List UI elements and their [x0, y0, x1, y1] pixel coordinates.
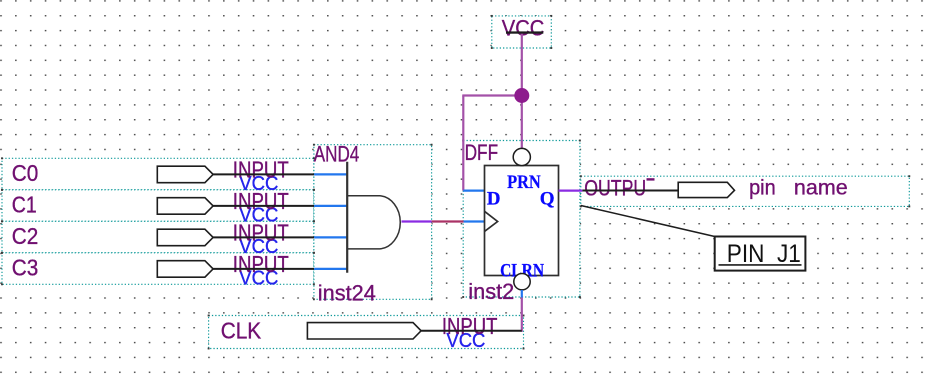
svg-text:AND4: AND4 [314, 141, 360, 166]
selection box input pin C3 [2, 253, 314, 284]
svg-text:D: D [487, 188, 501, 209]
selection box OUTPUT pin [581, 176, 910, 206]
wire VCC branch vertical [462, 96, 464, 191]
VCC symbol bar [506, 31, 543, 33]
svg-text:INPUT: INPUT [442, 313, 498, 339]
svg-text:INPUT: INPUT [233, 220, 289, 246]
svg-text:Q: Q [540, 188, 555, 209]
CLK pin symbol [307, 323, 421, 339]
selection box DFF [463, 141, 580, 298]
svg-text:name: name [794, 177, 848, 200]
junction dot [514, 88, 529, 103]
OUTPUT pin symbol [678, 182, 734, 197]
stub C0 blue [314, 173, 347, 175]
svg-text:VCC: VCC [502, 15, 545, 40]
input pin C3 symbol [157, 261, 213, 278]
DFF PRN bubble [513, 148, 530, 165]
wire C3 [213, 268, 314, 270]
wire C1 [213, 205, 314, 207]
wire C0 [213, 173, 314, 175]
selection box AND4 gate [314, 145, 432, 300]
wire OUTPUT black [582, 190, 678, 192]
svg-text:C1: C1 [12, 192, 37, 218]
DFF body [485, 166, 559, 276]
stub CLRN blue [521, 290, 523, 298]
stub DFF clock blue [464, 220, 485, 222]
PIN J1 underline [719, 264, 802, 266]
input pin C1 symbol [157, 198, 213, 215]
svg-text:PRN: PRN [507, 172, 541, 193]
wire AND output violet [402, 220, 432, 222]
PIN J1 leader line [581, 206, 715, 237]
wire VCC stem [521, 34, 523, 149]
svg-text:C0: C0 [12, 160, 39, 186]
selection box input pin C0 [2, 158, 314, 190]
svg-text:INPUT: INPUT [233, 188, 289, 214]
svg-text:pin: pin [749, 177, 776, 200]
svg-text:OUTPU: OUTPU [584, 176, 646, 201]
PIN J1 box [715, 237, 806, 271]
input pin C2 symbol [157, 229, 213, 246]
svg-text:C3: C3 [12, 255, 39, 281]
DFF clock triangle [485, 211, 498, 231]
AND4 gate body [347, 196, 400, 249]
wire CLRN to CLK magenta [521, 298, 523, 332]
stub C3 blue [314, 268, 347, 270]
selection box input pin C2 [2, 221, 314, 253]
selection box input pin C1 [2, 190, 314, 222]
OUTPUT T top bar remnant [647, 178, 655, 180]
svg-text:DFF: DFF [465, 140, 499, 165]
input pin C0 symbol [157, 166, 213, 183]
svg-text:inst24: inst24 [318, 280, 376, 305]
selection box VCC symbol [492, 16, 552, 48]
wire AND to DFF maroon [432, 220, 464, 222]
stub C1 blue [314, 205, 347, 207]
DFF CLRN bubble [514, 274, 530, 290]
svg-text:INPUT: INPUT [233, 157, 289, 183]
selection box CLK input pin [209, 316, 524, 349]
wire Q output violet [559, 190, 583, 192]
stub DFF D blue [463, 190, 484, 192]
wire CLK horizontal [421, 330, 522, 332]
AND4 gate input bar [346, 162, 348, 273]
svg-text:CLK: CLK [221, 318, 262, 344]
svg-text:inst2: inst2 [468, 279, 514, 304]
wire VCC branch horizontal [462, 94, 522, 96]
svg-text:INPUT: INPUT [233, 251, 289, 277]
svg-text:PIN J1: PIN J1 [727, 240, 801, 268]
wire C2 [213, 236, 314, 238]
svg-text:C2: C2 [12, 223, 39, 249]
stub C2 blue [314, 236, 347, 238]
